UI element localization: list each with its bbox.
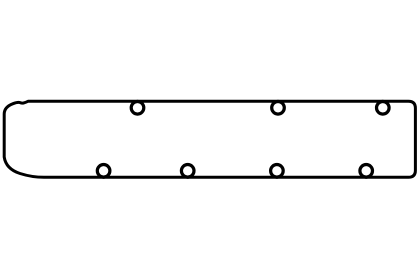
junction fillet, top hole at x=137.5: [131, 100, 144, 103]
junction fillet, bottom hole at x=187.7: [181, 176, 194, 179]
junction fillet, bottom hole at x=103.6: [97, 176, 110, 179]
bolt hole bottom 3: [271, 165, 284, 178]
bolt hole bottom 2: [181, 165, 194, 178]
junction fillet, bottom hole at x=366.2: [360, 176, 373, 179]
bolt hole top 1: [131, 102, 144, 115]
junction fillet, bottom hole at x=276.9: [271, 176, 284, 179]
bolt hole top 3: [377, 102, 390, 115]
gasket outline: [4, 101, 415, 177]
bolt hole bottom 1: [97, 165, 110, 178]
bolt hole top 2: [272, 102, 285, 115]
junction fillet, top hole at x=382.8: [377, 100, 390, 103]
junction fillet, top hole at x=278.0: [272, 100, 285, 103]
bolt hole bottom 4: [360, 165, 373, 178]
